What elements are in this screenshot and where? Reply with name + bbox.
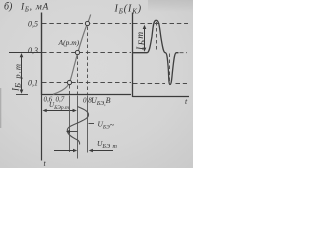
thin vertical below axis at 69.5: [69, 96, 71, 153]
0,3 level extension to left margin: [9, 52, 42, 54]
right graph y-axis: [132, 13, 134, 98]
dashed level 0,1: [42, 82, 131, 84]
U_BE op-point double arrow: [43, 109, 77, 113]
scan artifact top right shading: [148, 0, 193, 12]
U_BEm leader arrow from right: [89, 149, 113, 153]
scan grain overlay: [0, 0, 193, 168]
thin vertical below axis at 88: [87, 96, 89, 153]
dashed vertical at operating point: [77, 56, 79, 95]
input signal sine wave (vertical, time downward): [67, 107, 88, 145]
dashed level 0,3: [42, 52, 131, 54]
dashed vertical in peak: [156, 22, 158, 52]
leader for U_BE~ label: [89, 123, 95, 125]
small arrow to left wave extreme: [66, 130, 78, 133]
I_Bm amplitude double arrow: [143, 25, 147, 52]
dashed level 0,5: [42, 23, 131, 25]
dashed level 0,5 right graph: [133, 23, 188, 25]
operating point node A: [75, 50, 79, 54]
bottom dimension arrow from left: [54, 149, 77, 153]
scan artifact left edge streak: [0, 88, 2, 128]
input characteristic curve: [53, 15, 91, 95]
dashed vertical in trough: [169, 54, 171, 85]
t-axis (time axis downward): [41, 95, 43, 161]
thin vertical below axis at 78 (signal axis): [77, 96, 79, 159]
paper background: [0, 0, 193, 168]
dashed vertical at 0,1 point: [69, 85, 71, 94]
node circle at 0,5 level: [85, 21, 89, 25]
x-axis: [42, 94, 132, 96]
output current sine wave: [133, 20, 179, 84]
dashed vertical at 0,5 point: [87, 27, 89, 95]
I_B op-point double arrow: [20, 53, 24, 94]
y-axis: [41, 13, 43, 96]
dashed level 0,1 right graph: [133, 83, 187, 85]
right graph t-axis: [133, 96, 190, 98]
short baseline tick under left arrow: [16, 94, 28, 96]
node circle at 0,1 level: [67, 80, 71, 84]
dashed mid level right of wave: [180, 52, 188, 54]
